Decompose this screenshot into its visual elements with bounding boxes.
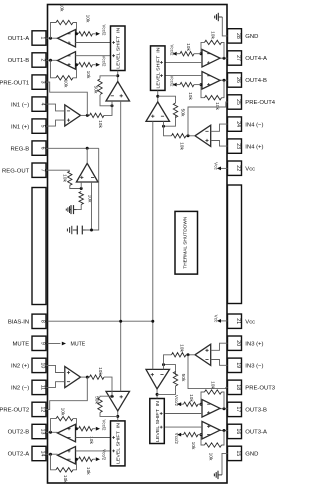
svg-text:OUT3-B: OUT3-B xyxy=(245,408,267,414)
svg-text:11: 11 xyxy=(40,385,46,390)
svg-text:LEVEL SHIFT IN: LEVEL SHIFT IN xyxy=(155,401,160,442)
wire pin18 PRE-OUT3 trace xyxy=(188,355,228,389)
svg-text:MUTE: MUTE xyxy=(12,342,29,348)
svg-text:10k: 10k xyxy=(62,475,68,483)
svg-text:GND: GND xyxy=(245,452,258,458)
wire pin17 to amp 3B output xyxy=(220,407,228,410)
wire pin5 to preamp1 noninv xyxy=(46,120,65,126)
wire 2A plus to level shift 2 xyxy=(76,450,111,452)
pin 16 OUT3-A xyxy=(228,424,267,438)
wire pin10 to preamp2 noninv xyxy=(46,365,65,372)
svg-text:Vcc/2: Vcc/2 xyxy=(101,25,106,37)
svg-text:19: 19 xyxy=(235,362,241,368)
svg-text:21: 21 xyxy=(235,318,241,324)
wire 1A plus to level shift xyxy=(76,42,111,44)
svg-text:17: 17 xyxy=(235,407,241,413)
resistor 50k feedback driver 3 xyxy=(173,372,186,392)
pin 1 OUT1-A xyxy=(8,31,46,45)
resistor 10k input 2A xyxy=(79,457,96,475)
svg-text:10: 10 xyxy=(40,363,46,369)
bias bus from pin 8 xyxy=(48,320,155,323)
op-amp 3B xyxy=(202,400,220,418)
svg-text:OUT2-A: OUT2-A xyxy=(8,452,30,458)
svg-text:15: 15 xyxy=(235,451,241,457)
thermal shutdown block xyxy=(175,211,198,274)
svg-text:9: 9 xyxy=(40,342,46,345)
svg-text:50k: 50k xyxy=(180,109,186,117)
svg-text:26: 26 xyxy=(235,77,241,83)
wire 4B minus to level shift 4 xyxy=(165,75,202,77)
pin 12 PRE-OUT2 xyxy=(0,402,46,416)
svg-text:10k: 10k xyxy=(185,43,191,51)
svg-text:OUT3-A: OUT3-A xyxy=(245,430,267,436)
wire 1B minus to level shift xyxy=(76,55,111,57)
pin 9 MUTE xyxy=(12,336,46,350)
wire pin23 to preamp4 noninv xyxy=(211,141,228,147)
feedback loop driver 3 xyxy=(157,363,175,394)
resistor 50k feedback driver 1 xyxy=(93,79,103,95)
Vcc/2 arrow 1B xyxy=(96,56,107,68)
wire preamp3 output xyxy=(186,353,195,356)
pin 5 IN1 (+) xyxy=(11,119,46,133)
pin 26 OUT4-B xyxy=(228,73,267,87)
wire pin12 PRE-OUT2 trace xyxy=(46,377,87,409)
wire pin14 to amp 2A output xyxy=(46,453,58,456)
svg-text:12: 12 xyxy=(40,407,46,413)
feedback loop 2A xyxy=(51,454,79,470)
svg-text:10k: 10k xyxy=(63,80,69,88)
pin 13 OUT2-B xyxy=(8,424,46,438)
wire pin25 PRE-OUT4 trace xyxy=(188,102,228,136)
resistor 10k regulator upper xyxy=(62,171,83,190)
op-amp 2B xyxy=(58,424,76,442)
svg-text:BIAS-IN: BIAS-IN xyxy=(8,320,29,326)
level shift block 2 xyxy=(111,421,126,466)
svg-text:10k: 10k xyxy=(84,15,90,23)
resistor 10k series driver 1 xyxy=(90,106,113,129)
svg-text:IN4 (+): IN4 (+) xyxy=(245,144,263,150)
level shift block 1 xyxy=(111,26,126,71)
Vcc arrow pin 22 xyxy=(214,162,228,170)
wire pin16 to amp 3A output xyxy=(220,429,228,432)
pin 2 OUT1-B xyxy=(8,53,46,67)
svg-text:PRE-OUT3: PRE-OUT3 xyxy=(245,386,275,392)
svg-text:Vcc: Vcc xyxy=(245,166,255,172)
preamp 3 xyxy=(195,344,211,365)
svg-text:Vcc/2: Vcc/2 xyxy=(174,433,179,445)
pin 3 PRE-OUT1 xyxy=(0,75,46,89)
svg-text:10k: 10k xyxy=(60,408,66,416)
Vcc arrow pin 21 xyxy=(214,315,228,323)
wire pin3 PRE-OUT1 trace xyxy=(46,82,87,115)
svg-text:GND: GND xyxy=(245,34,258,40)
svg-text:10k: 10k xyxy=(85,71,91,79)
level shift block 3 xyxy=(150,399,165,444)
wire pin27 to amp 4A output xyxy=(220,57,228,60)
op-amp 3A xyxy=(202,421,220,439)
wire pin2 to amp 1B output xyxy=(46,59,58,62)
svg-text:10k: 10k xyxy=(214,102,220,110)
svg-text:OUT1-A: OUT1-A xyxy=(8,36,30,42)
preamp 4 xyxy=(195,125,211,146)
driver op-amp 3 xyxy=(146,369,170,389)
svg-text:Vcc/2: Vcc/2 xyxy=(170,45,175,57)
pin 7 REG-OUT xyxy=(2,163,46,177)
svg-text:OUT1-B: OUT1-B xyxy=(8,58,30,64)
preamp 2 xyxy=(65,367,81,388)
wire pin7 REG-OUT xyxy=(46,169,70,171)
svg-text:IN4 (−): IN4 (−) xyxy=(245,122,263,128)
wire preamp2 output xyxy=(81,376,90,379)
capacitor to ground regulator divider xyxy=(66,205,76,214)
svg-text:18: 18 xyxy=(235,384,241,390)
svg-text:REG-B: REG-B xyxy=(11,146,30,152)
feedback loop 4B xyxy=(200,80,225,98)
Vcc/2 arrow 2A xyxy=(96,449,107,461)
pin 15 GND xyxy=(228,446,259,460)
feedback loop 4A xyxy=(200,42,225,58)
wire preamp1 output xyxy=(81,114,90,117)
resistor 10k input 3A xyxy=(181,432,202,450)
preamp 1 xyxy=(65,105,81,126)
resistor 10k feedback 3B xyxy=(205,381,222,394)
feedback loop 1B xyxy=(51,60,79,78)
svg-text:23: 23 xyxy=(235,143,241,149)
resistor 10k series driver 3 xyxy=(164,344,187,364)
bus driver4 noninv xyxy=(152,121,154,321)
svg-text:PRE-OUT4: PRE-OUT4 xyxy=(245,100,275,106)
pin 28 GND xyxy=(228,29,259,43)
feedback loop 1A xyxy=(51,23,79,39)
op-amp 2A xyxy=(58,447,76,465)
svg-text:OUT2-B: OUT2-B xyxy=(8,430,30,436)
pin 8 BIAS-IN xyxy=(8,314,46,328)
right frame tab box xyxy=(228,185,242,304)
svg-text:Vcc/2: Vcc/2 xyxy=(101,56,106,68)
resistor 10k input 1B xyxy=(79,63,96,79)
pin 10 IN2 (+) xyxy=(11,358,46,372)
bus driver2 noninv xyxy=(120,321,122,391)
op-amp 4A xyxy=(202,49,220,67)
svg-text:LEVEL SHIFT IN: LEVEL SHIFT IN xyxy=(116,423,121,464)
IC body outline xyxy=(48,5,228,484)
svg-text:3: 3 xyxy=(40,81,46,84)
resistor 10k series driver 2 xyxy=(90,367,113,396)
wire 3A plus to level shift 3 xyxy=(165,426,202,428)
ground pin 15 xyxy=(214,453,227,479)
svg-text:50k: 50k xyxy=(180,374,186,382)
svg-text:2: 2 xyxy=(40,59,46,62)
wire pin4 to preamp1 inv xyxy=(46,104,65,111)
svg-text:IN2 (−): IN2 (−) xyxy=(11,386,29,392)
resistor 10k input 4B xyxy=(177,82,201,100)
pin 22 Vcc xyxy=(228,161,256,175)
resistor 10k feedback 1A xyxy=(56,4,73,25)
resistor 10k feedback 4A xyxy=(205,31,222,44)
wire 4A plus to level shift 4 xyxy=(165,61,202,63)
svg-text:10k: 10k xyxy=(210,31,216,39)
svg-text:16: 16 xyxy=(235,429,241,435)
pin 6 REG-B xyxy=(11,141,46,155)
resistor 10k input 3B xyxy=(181,394,202,406)
svg-text:10k: 10k xyxy=(179,142,185,150)
svg-text:10k: 10k xyxy=(97,120,103,128)
pin 14 OUT2-A xyxy=(8,446,46,460)
svg-text:24: 24 xyxy=(235,121,241,127)
op-amp 1A xyxy=(58,30,76,48)
svg-text:10k: 10k xyxy=(208,453,214,461)
svg-text:Vcc/2: Vcc/2 xyxy=(170,76,175,88)
svg-text:27: 27 xyxy=(235,55,241,61)
Vcc/2 arrow 3A xyxy=(174,433,181,445)
resistor 10k feedback 1B xyxy=(56,76,73,88)
feedback loop 2B xyxy=(51,419,79,433)
wire level shift 1 to driver 1 xyxy=(116,71,119,82)
svg-text:Vcc: Vcc xyxy=(214,315,219,323)
Vcc/2 arrow 3B xyxy=(174,395,181,407)
svg-text:7: 7 xyxy=(40,169,46,172)
svg-text:LEVEL SHIFT IN: LEVEL SHIFT IN xyxy=(156,48,161,89)
feedback loop driver 4 xyxy=(158,96,176,128)
pin 20 IN3 (+) xyxy=(228,336,264,350)
resistor 10k feedback 2B xyxy=(56,408,73,421)
feedback loop driver 2 xyxy=(100,391,118,416)
feedback loop 3B xyxy=(200,392,225,409)
pin 21 Vcc xyxy=(228,314,256,328)
svg-text:10k: 10k xyxy=(188,394,194,402)
wire level shift 3 to driver 3 xyxy=(156,389,159,399)
svg-text:20: 20 xyxy=(235,340,241,346)
ground pin 28 xyxy=(215,13,228,36)
svg-text:10k: 10k xyxy=(97,367,103,375)
pin 11 IN2 (−) xyxy=(11,380,46,394)
resistor 10k series driver 4 xyxy=(164,126,187,150)
svg-text:13: 13 xyxy=(40,429,46,435)
resistor 10k feedback 4B xyxy=(205,96,222,111)
wire regulator bypass xyxy=(86,148,99,231)
svg-text:1: 1 xyxy=(40,37,46,40)
wire pin13 to amp 2B output xyxy=(46,431,58,434)
svg-text:OUT4-B: OUT4-B xyxy=(245,78,267,84)
wire pin19 to preamp3 inv xyxy=(211,360,228,366)
wire 2B minus to level shift 2 xyxy=(76,437,111,439)
pin 24 IN4 (−) xyxy=(228,117,264,131)
svg-text:LEVEL SHIFT IN: LEVEL SHIFT IN xyxy=(116,28,121,69)
svg-text:THERMAL SHUTDOWN: THERMAL SHUTDOWN xyxy=(183,216,189,269)
svg-text:IN3 (−): IN3 (−) xyxy=(245,364,263,370)
wire preamp4 output xyxy=(186,134,195,137)
svg-text:IN1 (+): IN1 (+) xyxy=(11,124,29,130)
mute arrow xyxy=(48,342,86,348)
driver op-amp 1 xyxy=(106,82,130,102)
svg-text:REG-OUT: REG-OUT xyxy=(2,168,30,174)
svg-text:5: 5 xyxy=(39,125,45,128)
pin 17 OUT3-B xyxy=(228,402,267,416)
wire pin6 REG-B xyxy=(46,147,99,150)
svg-text:PRE-OUT2: PRE-OUT2 xyxy=(0,408,29,414)
svg-text:28: 28 xyxy=(235,33,241,39)
svg-text:25: 25 xyxy=(235,99,241,105)
resistor 10k input 1A xyxy=(79,15,96,36)
pin 4 IN1 (−) xyxy=(11,97,46,111)
bus driver3 noninv xyxy=(152,321,154,369)
feedback loop 3A xyxy=(200,431,225,446)
svg-text:Vcc: Vcc xyxy=(214,162,219,170)
wire level shift 2 to driver 2 xyxy=(116,411,119,421)
left frame tab box xyxy=(32,188,46,305)
svg-text:Vcc: Vcc xyxy=(245,319,255,325)
svg-text:10k: 10k xyxy=(190,442,196,450)
Vcc/2 arrow 4B xyxy=(170,76,177,88)
resistor 10k input 2B xyxy=(79,427,96,445)
svg-text:IN2 (+): IN2 (+) xyxy=(11,364,29,370)
svg-text:22: 22 xyxy=(235,165,241,171)
svg-text:50k: 50k xyxy=(94,396,100,404)
op-amp 4B xyxy=(202,72,220,90)
svg-text:4: 4 xyxy=(40,103,46,106)
svg-text:Vcc/2: Vcc/2 xyxy=(101,420,106,432)
Vcc/2 arrow 4A xyxy=(170,45,177,57)
bus driver1 noninv xyxy=(120,101,122,321)
feedback loop driver 1 xyxy=(100,76,118,108)
wire pin26 to amp 4B output xyxy=(220,79,228,82)
pin 27 OUT4-A xyxy=(228,51,267,65)
resistor 50k feedback driver 2 xyxy=(94,396,103,413)
pin 25 PRE-OUT4 xyxy=(228,95,276,109)
svg-text:MUTE: MUTE xyxy=(71,342,86,348)
Vcc/2 arrow 1A xyxy=(96,25,107,37)
resistor 10k feedback 2A xyxy=(56,468,73,484)
op-amp 1B xyxy=(58,52,76,69)
svg-text:IN1 (−): IN1 (−) xyxy=(11,102,29,108)
resistor 50k feedback driver 4 xyxy=(173,99,185,118)
wire pin11 to preamp2 inv xyxy=(46,382,65,388)
wire 3B plus to level shift 3 xyxy=(165,413,202,415)
svg-text:10k: 10k xyxy=(85,467,91,475)
svg-text:PRE-OUT1: PRE-OUT1 xyxy=(0,80,29,86)
svg-text:6: 6 xyxy=(40,147,46,150)
resistor 10k input 4A xyxy=(177,43,201,56)
resistor 10k feedback 3A xyxy=(205,443,222,461)
wire pin24 to preamp4 inv xyxy=(211,124,228,131)
svg-text:IN3 (+): IN3 (+) xyxy=(245,341,263,347)
svg-text:10k: 10k xyxy=(179,344,185,352)
wire level shift 4 to driver 4 xyxy=(156,90,159,102)
resistor 10k regulator lower xyxy=(77,192,93,210)
pin 23 IN4 (+) xyxy=(228,139,264,153)
capacitor to ground REG-B bypass xyxy=(67,226,85,235)
pin 18 PRE-OUT3 xyxy=(228,380,276,394)
wire pin1 to amp 1A output xyxy=(46,37,58,40)
svg-text:8: 8 xyxy=(40,320,46,323)
pin 19 IN3 (−) xyxy=(228,358,264,372)
level shift block 4 xyxy=(151,46,166,91)
regulator op-amp xyxy=(76,148,98,182)
Vcc/2 arrow 2B xyxy=(96,420,107,432)
svg-text:14: 14 xyxy=(40,451,46,457)
driver op-amp 2 xyxy=(106,391,130,411)
svg-text:Vcc/2: Vcc/2 xyxy=(174,395,179,407)
svg-text:50k: 50k xyxy=(93,86,99,94)
driver op-amp 4 xyxy=(146,102,170,122)
wire pin20 to preamp3 noninv xyxy=(211,343,228,350)
svg-text:OUT4-A: OUT4-A xyxy=(245,56,267,62)
svg-text:10k: 10k xyxy=(187,92,193,100)
